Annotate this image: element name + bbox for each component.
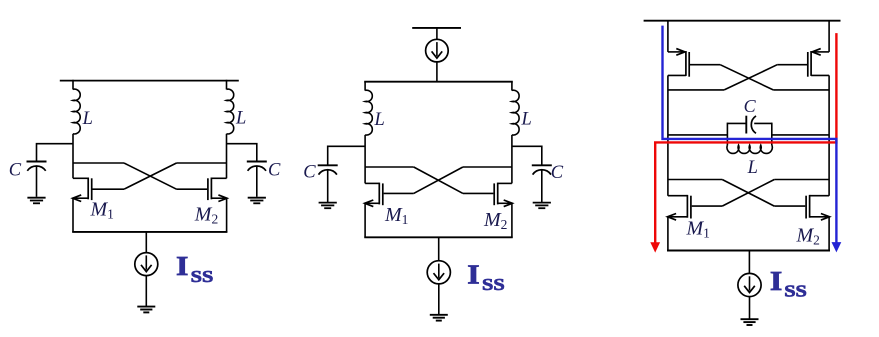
wire: rail to P1 source: [667, 21, 669, 52]
wire: diagonal to M1 gate (right circuit): [722, 180, 774, 207]
svg-text:SS: SS: [191, 268, 214, 287]
svg-text:I: I: [467, 261, 479, 290]
wire: to capacitor C4: [512, 146, 542, 165]
capacitor C3 (middle circuit left): [318, 165, 338, 202]
current source ISS (middle circuit): [427, 261, 450, 284]
capacitor C5 (tank, horizontal): [746, 116, 756, 134]
svg-text:L: L: [747, 158, 758, 178]
wire: diagonal (middle): [414, 167, 463, 193]
wire: node X vertical (left circuit): [72, 134, 74, 179]
current source (middle circuit top): [426, 39, 449, 62]
wire: pmos cross wire right: [773, 89, 829, 91]
ground (below C3): [319, 203, 337, 209]
wire: nmos cross wire left (right circuit): [668, 179, 722, 181]
ground (right circuit tail): [741, 319, 759, 325]
svg-text:C: C: [9, 161, 22, 181]
svg-text:SS: SS: [482, 276, 505, 295]
wire: tail tap (middle): [438, 237, 440, 260]
svg-text:I: I: [770, 267, 782, 296]
wire: tank box left vertical: [726, 123, 728, 146]
wire: bar to top current source: [436, 28, 438, 40]
wire: source rail (right circuit): [667, 250, 830, 252]
svg-text:L: L: [521, 110, 532, 130]
svg-text:C: C: [744, 96, 757, 116]
wire: diagonal to M2 gate (right circuit): [722, 180, 774, 207]
wire: pmos cross wire left: [668, 89, 724, 91]
transistor P1 (pmos left): [668, 49, 720, 196]
wire: diagonal Y drain to M1 gate: [124, 163, 177, 189]
inductor L (left circuit, right branch): [227, 89, 234, 134]
ground (below C4): [533, 203, 551, 209]
svg-text:L: L: [235, 109, 246, 129]
transistor M2 (left circuit): [177, 178, 228, 233]
svg-text:C: C: [303, 162, 316, 182]
svg-text:M1: M1: [686, 218, 710, 241]
ground (below C1): [27, 198, 45, 204]
wire: tank feed left: [668, 134, 728, 136]
transistor M2 (middle circuit): [463, 183, 512, 238]
ground (middle circuit tail): [430, 315, 448, 321]
wire: node vertical (middle left): [364, 135, 366, 184]
svg-text:M1: M1: [90, 198, 114, 221]
wire: diagonal P1 gate: [720, 65, 773, 90]
capacitor C1 (left circuit left): [27, 162, 47, 197]
inductor L (middle circuit, left branch): [365, 90, 372, 135]
wire: top current source to rail: [436, 62, 438, 82]
svg-text:M2: M2: [194, 203, 218, 226]
wire: nmos cross wire right (right circuit): [774, 179, 829, 181]
svg-text:SS: SS: [784, 282, 807, 301]
supply bar (middle circuit): [412, 27, 461, 29]
wire: tail to ground (right circuit): [749, 297, 751, 319]
wire: drain Y cross wire: [177, 162, 227, 164]
wire: to capacitor C3: [328, 146, 365, 165]
wire: diagonal P2 gate: [724, 65, 777, 90]
wire: source rail (left circuit): [72, 231, 227, 233]
wire: node vertical (middle right): [511, 135, 513, 184]
wire: drain X cross wire: [73, 162, 124, 164]
svg-text:M2: M2: [796, 225, 820, 248]
rail (middle circuit): [364, 81, 513, 83]
VDD rail (right circuit): [644, 20, 841, 22]
wire: left inductor lead: [72, 80, 74, 90]
wire: left inductor lead (middle): [364, 82, 366, 91]
svg-text:M2: M2: [483, 209, 507, 232]
wire: tail to ground (middle): [438, 284, 440, 315]
ground (left circuit tail): [137, 307, 155, 313]
transistor P2 (pmos right): [777, 21, 829, 196]
wire: right inductor lead (middle): [511, 82, 513, 91]
svg-text:C: C: [268, 161, 281, 181]
svg-text:I: I: [176, 252, 188, 281]
svg-text:C: C: [551, 163, 564, 183]
blue current path: [663, 26, 837, 243]
ground (below C2): [248, 198, 266, 204]
capacitor C4 (middle circuit right): [532, 165, 552, 202]
current source ISS (right circuit): [738, 273, 761, 296]
inductor L (tank, horizontal): [727, 145, 772, 153]
capacitor C2 (left circuit right): [247, 162, 267, 197]
wire: diagonal X drain to M2 gate: [124, 163, 177, 189]
wire: diagonal (middle): [414, 167, 463, 193]
transistor M2 (right circuit): [774, 195, 829, 251]
wire: source rail (middle circuit): [364, 236, 512, 238]
wire: drain cross wire (middle left): [365, 166, 414, 168]
svg-text:L: L: [82, 109, 93, 129]
transistor M1 (left circuit): [73, 178, 124, 233]
svg-text:L: L: [374, 110, 385, 130]
wire: node Y vertical (left circuit): [226, 134, 228, 179]
transistor M1 (right circuit): [668, 195, 723, 251]
VDD rail (left circuit): [60, 80, 239, 82]
wire: drain cross wire (middle right): [463, 166, 512, 168]
wire: tail tap: [145, 232, 147, 253]
inductor L (left, left branch): [73, 89, 80, 134]
wire: tank box right vertical: [771, 123, 773, 146]
current source ISS (left circuit): [135, 253, 158, 276]
transistor M1 (middle circuit): [365, 183, 414, 238]
wire: tail tap (right circuit): [748, 251, 750, 274]
wire: tank feed right: [772, 134, 829, 136]
wire: right inductor lead: [226, 80, 228, 90]
wire: tail to ground: [145, 276, 147, 307]
blue arrowhead: [832, 242, 842, 252]
wire: capacitor C5 leads: [727, 122, 746, 124]
wire: node Y to capacitor C2: [227, 144, 257, 162]
red arrowhead: [650, 242, 660, 252]
red current path: [655, 33, 836, 243]
inductor L (middle circuit, right branch): [512, 90, 519, 135]
svg-text:M1: M1: [384, 204, 408, 227]
wire: node X to capacitor C1: [37, 144, 74, 162]
